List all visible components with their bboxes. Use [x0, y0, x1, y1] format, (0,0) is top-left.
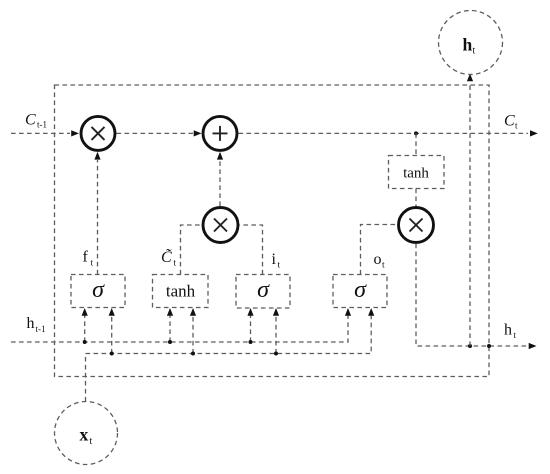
- arrowhead into A1 bottom: [217, 152, 223, 160]
- plus node A1 (cell state sum): [203, 116, 237, 150]
- wire tanh(candidate) elbow into M2 left: [181, 225, 203, 275]
- arrowhead sigma-f right: [109, 308, 115, 316]
- cell boundary box: [55, 85, 490, 377]
- x(t) input circle (bottom): [55, 402, 118, 465]
- arrowhead tanh-c right: [190, 308, 196, 316]
- node junction h-up takeoff: [468, 344, 472, 348]
- svg-text:t: t: [278, 261, 281, 271]
- stub sigma-i left input: [250, 315, 252, 342]
- svg-text:f: f: [83, 249, 89, 266]
- arrowhead sigma-i left: [247, 308, 253, 316]
- svg-text:h: h: [504, 322, 512, 339]
- wire from M1 to plus node: [117, 132, 194, 134]
- node junction sigma-i left on h line: [249, 340, 253, 344]
- node junction tanh-c right on x line: [191, 352, 195, 356]
- wire M2 up to A1: [219, 160, 221, 206]
- stub sigma-f left input: [84, 315, 86, 342]
- gate box sigma-f: [71, 275, 125, 308]
- svg-text:t: t: [90, 436, 93, 447]
- svg-text:C: C: [25, 112, 36, 129]
- arrowhead h-line into sigma-o left: [345, 308, 351, 316]
- wire tanh box down to M3: [415, 189, 417, 207]
- arrowhead x-line into sigma-o right: [368, 308, 374, 316]
- wire C-line junction down into tanh output box: [415, 133, 417, 155]
- wire M3 output down and right to h(t): [416, 244, 528, 347]
- svg-text:t: t: [91, 259, 94, 269]
- node junction sigma-f left on h line: [83, 340, 87, 344]
- stub tanh-c right input: [192, 315, 194, 354]
- arrowhead C(t) output: [530, 130, 538, 136]
- svg-text:C̃: C̃: [161, 248, 172, 266]
- svg-text:x: x: [80, 425, 89, 445]
- node junction at box border on h line: [487, 344, 491, 348]
- multiply node M2 (input gate product): [203, 208, 238, 243]
- wire h(t-1) input line across to sigma-o left arrow: [11, 315, 348, 342]
- svg-text:h: h: [463, 35, 473, 55]
- svg-text:t: t: [382, 261, 385, 271]
- node junction on C line: [414, 131, 418, 135]
- tanh output box: [389, 156, 445, 189]
- gate box sigma-i: [236, 275, 290, 309]
- svg-text:σ: σ: [354, 277, 367, 303]
- gate box sigma-o: [333, 275, 387, 308]
- svg-text:t-1: t-1: [36, 324, 46, 334]
- stub tanh-c left input: [169, 315, 171, 342]
- arrowhead sigma-i right: [273, 308, 279, 316]
- node junction sigma-f right on x line: [110, 352, 114, 356]
- svg-text:σ: σ: [92, 277, 105, 303]
- arrowhead into M1 bottom: [94, 152, 100, 160]
- arrowhead sigma-f left: [82, 308, 88, 316]
- arrowhead into h(t) circle: [467, 74, 473, 82]
- wire sigma-i elbow into M2 right: [239, 225, 263, 275]
- svg-text:t: t: [515, 121, 518, 131]
- gate box tanh-c: [153, 275, 209, 308]
- node junction sigma-i right on x line: [274, 352, 278, 356]
- svg-text:t: t: [174, 259, 177, 269]
- arrowhead h(t) output: [529, 343, 537, 349]
- svg-text:t: t: [473, 46, 476, 57]
- svg-text:o: o: [374, 251, 382, 268]
- svg-text:C: C: [504, 113, 515, 130]
- arrowhead into multiply node M1: [71, 130, 79, 136]
- arrowhead into plus node A1: [194, 130, 202, 136]
- wire sigma-o elbow into M3 left: [361, 225, 398, 275]
- wire h recurrent up to h(t) circle: [469, 83, 471, 346]
- arrowhead tanh-c left: [167, 308, 173, 316]
- svg-text:h: h: [27, 315, 35, 332]
- stub sigma-i right input: [275, 315, 277, 354]
- wire sigma-f up to M1: [97, 160, 99, 275]
- wire C(t) output line: [239, 132, 529, 134]
- svg-text:t-1: t-1: [37, 120, 47, 130]
- multiply node M1 (forget gate product): [81, 116, 115, 150]
- node junction tanh-c left on h line: [168, 340, 172, 344]
- wire C(t-1) input line: [11, 132, 70, 134]
- h(t) state circle (top): [439, 11, 503, 75]
- stub sigma-f right input: [111, 315, 113, 354]
- svg-text:σ: σ: [257, 277, 270, 303]
- svg-text:t: t: [514, 330, 517, 340]
- svg-text:i: i: [272, 251, 277, 268]
- multiply node M3 (output gate product): [399, 208, 434, 243]
- wire x(t) input line across to sigma-o right arrow: [86, 315, 372, 402]
- svg-text:tanh: tanh: [166, 282, 196, 301]
- svg-text:tanh: tanh: [403, 166, 429, 182]
